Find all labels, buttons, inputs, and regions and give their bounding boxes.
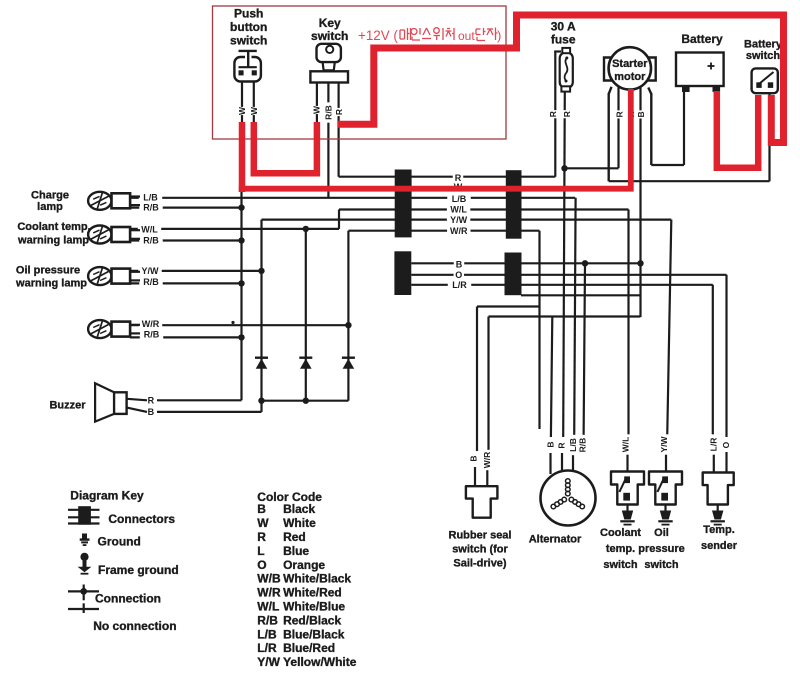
wire W/R block line [348, 230, 539, 232]
svg-text:R/B: R/B [143, 277, 159, 287]
wire W/R drop right [538, 231, 540, 429]
svg-text:White/Blue: White/Blue [283, 600, 345, 614]
lamp4 connector [112, 322, 131, 337]
wire L/B drop to alternator [574, 198, 575, 437]
svg-text:O: O [721, 441, 731, 448]
svg-text:White/Black: White/Black [283, 572, 351, 586]
svg-text:W: W [237, 106, 247, 115]
svg-text:L/R: L/R [452, 280, 467, 290]
label W/R rubber [482, 450, 492, 470]
svg-text:R/B: R/B [144, 330, 160, 340]
svg-text:W/L: W/L [450, 204, 467, 214]
svg-text:Red/Black: Red/Black [283, 613, 341, 627]
coolant temp warning lamp leads [130, 229, 140, 231]
svg-text:Connectors: Connectors [108, 512, 175, 526]
wire L/R drop to temp sender [712, 285, 714, 437]
svg-text:O: O [455, 270, 462, 280]
wire W/L coolant lamp [130, 228, 339, 230]
starter leg R [617, 87, 619, 168]
svg-text:Y/W: Y/W [450, 215, 468, 225]
legend frame ground symbol [80, 553, 88, 561]
label O [454, 270, 464, 280]
label R/B lamp4 [140, 329, 163, 339]
svg-text:Black: Black [283, 502, 315, 516]
coolant temp switch [611, 472, 644, 505]
starter main terminal wire [609, 87, 612, 94]
fuse right leg to alternator R [563, 92, 565, 437]
wire Y/W oil lamp [130, 270, 262, 272]
lamp4 bulb [88, 320, 111, 338]
svg-text:Battery: Battery [744, 39, 783, 51]
wire O drop to temp sender [725, 275, 727, 437]
diode D1 vertical [260, 271, 262, 401]
label L/B [447, 194, 470, 204]
oil pressure warning lamp bulb [88, 267, 111, 285]
connector block lower right [505, 253, 522, 296]
rubber seal W/R drop [487, 317, 489, 451]
wire R connector to key switch [339, 176, 556, 178]
wire Y/W jog vertical [260, 220, 262, 271]
wire starter B to rubber W/R [489, 315, 641, 317]
label W starter [626, 110, 636, 118]
diode D2 vertical [305, 229, 307, 401]
battery switch [752, 68, 778, 93]
starter motor [604, 58, 613, 81]
wire R/B charge lamp to chain [130, 207, 242, 209]
svg-text:switch: switch [746, 50, 781, 62]
svg-text:pressure: pressure [638, 543, 684, 555]
wire R/B oil lamp [130, 282, 242, 284]
diode bus [262, 400, 349, 402]
key switch leg R [338, 83, 340, 177]
label W push right [249, 107, 259, 115]
charge lamp leads [130, 195, 140, 197]
wire O [411, 274, 726, 276]
svg-text:Diagram Key: Diagram Key [70, 489, 144, 503]
svg-text:warning lamp: warning lamp [17, 234, 89, 246]
svg-text:Alternator: Alternator [529, 534, 582, 546]
label L/B alternator [568, 435, 578, 455]
key switch leg R/B [327, 83, 329, 198]
label B alternator [545, 440, 555, 448]
wire B [411, 262, 641, 264]
wire L/R [411, 284, 713, 286]
label Y/W lamp [138, 266, 161, 276]
svg-text:B: B [636, 111, 646, 117]
label O sender [721, 441, 731, 449]
svg-text:R/B: R/B [323, 105, 333, 120]
wire block to starter B link [521, 294, 641, 296]
label W/R [447, 226, 470, 236]
diode D2 [300, 359, 312, 369]
buzzer [114, 392, 127, 414]
svg-text:W/L: W/L [620, 437, 630, 453]
svg-text:R/B: R/B [143, 235, 159, 245]
svg-text:Red: Red [283, 530, 306, 544]
svg-text:warning lamp: warning lamp [15, 277, 87, 289]
wire W/L to blocks [339, 208, 629, 210]
svg-text:L/B: L/B [452, 194, 467, 204]
svg-text:W: W [311, 105, 321, 114]
svg-text:switch: switch [603, 559, 638, 571]
svg-text:R: R [548, 111, 558, 117]
diode D1 [256, 359, 268, 369]
svg-text:Y/W: Y/W [659, 436, 669, 453]
svg-text:): ) [497, 28, 501, 43]
label W/L [447, 204, 470, 214]
wire starter main to battery switch [609, 180, 770, 182]
label L/R sender [708, 434, 718, 454]
svg-text:switch (for: switch (for [452, 544, 508, 556]
red annotation box [213, 6, 507, 139]
red wire push right to key W loop [254, 122, 317, 173]
label W push left [237, 107, 247, 115]
svg-text:Starter: Starter [612, 58, 648, 70]
svg-text:R/B: R/B [257, 613, 278, 627]
svg-text:Blue/Black: Blue/Black [283, 627, 345, 641]
svg-text:Push: Push [234, 7, 263, 21]
svg-text:Yellow/White: Yellow/White [283, 655, 357, 669]
alternator stubs [549, 453, 551, 474]
rubber seal B drop [476, 307, 478, 452]
svg-text:Temp.: Temp. [703, 524, 735, 536]
label R starter [615, 110, 625, 118]
svg-text:Orange: Orange [283, 558, 325, 572]
rubber seal switch [466, 486, 498, 518]
label W/R lamp4 [139, 319, 162, 329]
connector block upper right [506, 170, 522, 239]
svg-text:W: W [249, 106, 259, 115]
svg-text:R/B: R/B [143, 203, 159, 213]
label B rubber [469, 454, 479, 462]
connector block upper left [395, 170, 412, 238]
label B [454, 259, 464, 269]
svg-text:W/R: W/R [142, 319, 160, 329]
svg-text:sender: sender [701, 540, 738, 552]
buzzer wire R [157, 399, 242, 401]
svg-text:R: R [257, 530, 266, 544]
diode D3 [343, 359, 355, 369]
svg-text:R: R [615, 111, 625, 117]
stray mark [231, 321, 234, 324]
oil pressure warning lamp leads [130, 271, 140, 273]
label R/B alternator [578, 435, 588, 455]
label W [453, 182, 463, 192]
svg-text:switch: switch [230, 34, 267, 48]
svg-text:W/B: W/B [257, 572, 281, 586]
wire W/L jog vertical [338, 210, 340, 229]
svg-text:Oil pressure: Oil pressure [16, 265, 80, 277]
wire R/B chain vertical [240, 190, 242, 401]
label W/L lamp [138, 225, 161, 235]
svg-text:Charge: Charge [31, 190, 69, 202]
legend no connection symbol [68, 608, 99, 610]
label R fuse right [562, 110, 572, 118]
wire L/B charge lamp to connector [130, 197, 575, 199]
red wire key R to top [338, 15, 784, 143]
label R/B lamp3 [139, 277, 162, 287]
starter leg B [639, 87, 641, 317]
svg-text:W/R: W/R [450, 226, 468, 236]
svg-text:switch: switch [311, 29, 348, 43]
push button leg W left [241, 82, 243, 123]
connector block lower left [394, 251, 411, 295]
key switch [317, 44, 341, 62]
svg-text:R/B: R/B [578, 438, 588, 453]
svg-text:Y/W: Y/W [257, 655, 280, 669]
svg-text:Y/W: Y/W [142, 266, 160, 276]
fuse-starter link [565, 167, 619, 169]
svg-text:lamp: lamp [37, 201, 63, 213]
label R/B lamp1 [139, 203, 162, 213]
oil pressure warning lamp connector [112, 269, 131, 284]
svg-text:temp.: temp. [606, 543, 635, 555]
wire R/B coolant lamp [130, 239, 242, 241]
oil switch stub [665, 452, 667, 473]
battery [676, 53, 724, 87]
coolant temp warning lamp bulb [88, 226, 111, 244]
label L/R [448, 280, 471, 290]
svg-text:B: B [257, 502, 266, 516]
svg-text:Coolant temp.: Coolant temp. [17, 221, 90, 233]
svg-text:Oil: Oil [654, 527, 669, 539]
diode D3 vertical / W/R drop [347, 231, 349, 401]
wire R/B alternator drop [584, 263, 585, 437]
svg-text:L/B: L/B [568, 438, 578, 452]
legend connectors symbol [68, 509, 100, 511]
wire Y/W drop to oil switch [667, 220, 671, 437]
coolant switch stub [626, 452, 628, 473]
svg-text:R: R [148, 396, 155, 406]
red wire main +12V horizontal [239, 89, 631, 189]
svg-text:fuse: fuse [551, 33, 576, 47]
svg-text:motor: motor [614, 71, 646, 83]
svg-text:Key: Key [319, 16, 341, 30]
svg-text:W/R: W/R [482, 452, 492, 469]
svg-text:W: W [257, 516, 269, 530]
label W key [311, 106, 321, 114]
svg-text:Blue: Blue [283, 544, 309, 558]
red wire push button left leg [239, 122, 246, 192]
label W/L coolant [620, 434, 630, 454]
svg-text:B: B [469, 455, 479, 461]
svg-text:No connection: No connection [93, 619, 176, 633]
svg-text:Coolant: Coolant [600, 527, 641, 539]
label R alternator [557, 441, 567, 449]
svg-text:White/Red: White/Red [283, 586, 342, 600]
svg-text:W/R: W/R [257, 586, 281, 600]
svg-text:out: out [458, 29, 475, 43]
temp sender stubs [713, 453, 715, 474]
buzzer wire B [157, 411, 262, 413]
oil pressure switch [649, 472, 682, 505]
junction dots R/B chain [238, 204, 244, 210]
label R [453, 173, 463, 183]
svg-text:30 A: 30 A [551, 20, 576, 34]
legend connection symbol [68, 590, 99, 592]
label L/B lamp [139, 192, 162, 202]
alternator B drop [551, 317, 552, 438]
charge lamp bulb [88, 192, 111, 210]
temp sender [703, 473, 734, 505]
svg-text:L/B: L/B [257, 627, 277, 641]
svg-text:Buzzer: Buzzer [49, 399, 86, 411]
legend ground symbol [82, 534, 87, 540]
svg-text:W/L: W/L [141, 225, 158, 235]
starter frame right wire [648, 88, 651, 95]
label R fuse left [548, 110, 558, 118]
battery minus leg [683, 91, 685, 165]
svg-text:L/R: L/R [257, 641, 277, 655]
wire starter frame to battery minus [651, 164, 684, 166]
lamp4 leads [130, 324, 140, 326]
svg-text:L: L [257, 544, 264, 558]
svg-text:L/R: L/R [708, 438, 718, 452]
svg-text:B: B [148, 407, 155, 417]
30A fuse [560, 52, 573, 88]
charge lamp connector [112, 193, 131, 208]
svg-text:button: button [230, 20, 267, 34]
fuse left leg [554, 52, 556, 177]
alternator [541, 471, 596, 526]
svg-text:L/B: L/B [143, 193, 158, 203]
svg-text:R: R [557, 442, 567, 448]
svg-text:Connection: Connection [95, 592, 161, 606]
label R/B lamp2 [139, 235, 162, 245]
svg-text:Blue/Red: Blue/Red [283, 641, 335, 655]
svg-text:B: B [545, 441, 555, 447]
svg-text:Sail-drive): Sail-drive) [453, 558, 507, 570]
svg-text:O: O [257, 558, 266, 572]
label R buzzer [146, 395, 156, 405]
label B starter [636, 110, 646, 118]
push button leg W right [253, 82, 255, 123]
wire R/B lamp4 [130, 336, 242, 338]
label R key [334, 108, 344, 116]
battery switch right leg black [768, 94, 770, 181]
coolant temp warning lamp connector [112, 227, 131, 242]
svg-text:W/L: W/L [257, 600, 279, 614]
svg-text:+12V (: +12V ( [358, 28, 398, 43]
wire W/L drop to coolant switch [627, 210, 629, 438]
rubber seal stubs [474, 467, 476, 487]
svg-text:B: B [456, 260, 463, 270]
red wire battery plus to switch [717, 91, 758, 168]
wire W/R lamp4 [130, 324, 348, 326]
svg-text:switch: switch [644, 559, 679, 571]
svg-text:R: R [562, 111, 572, 117]
label Y/W oil [659, 434, 669, 454]
svg-text:Frame ground: Frame ground [98, 563, 179, 577]
svg-text:Rubber seal: Rubber seal [449, 530, 512, 542]
svg-text:White: White [283, 516, 316, 530]
wire W under red [242, 187, 631, 189]
key switch leg W [316, 83, 318, 125]
wire to rubber seal B [477, 305, 540, 307]
label B buzzer [146, 407, 156, 417]
label R/B key [323, 102, 333, 122]
svg-text:Battery: Battery [681, 32, 723, 46]
svg-text:R: R [334, 109, 344, 115]
label Y/W [447, 215, 470, 225]
svg-text:Ground: Ground [98, 535, 141, 549]
push button switch [234, 57, 261, 82]
wire Y/W to blocks [262, 219, 672, 221]
